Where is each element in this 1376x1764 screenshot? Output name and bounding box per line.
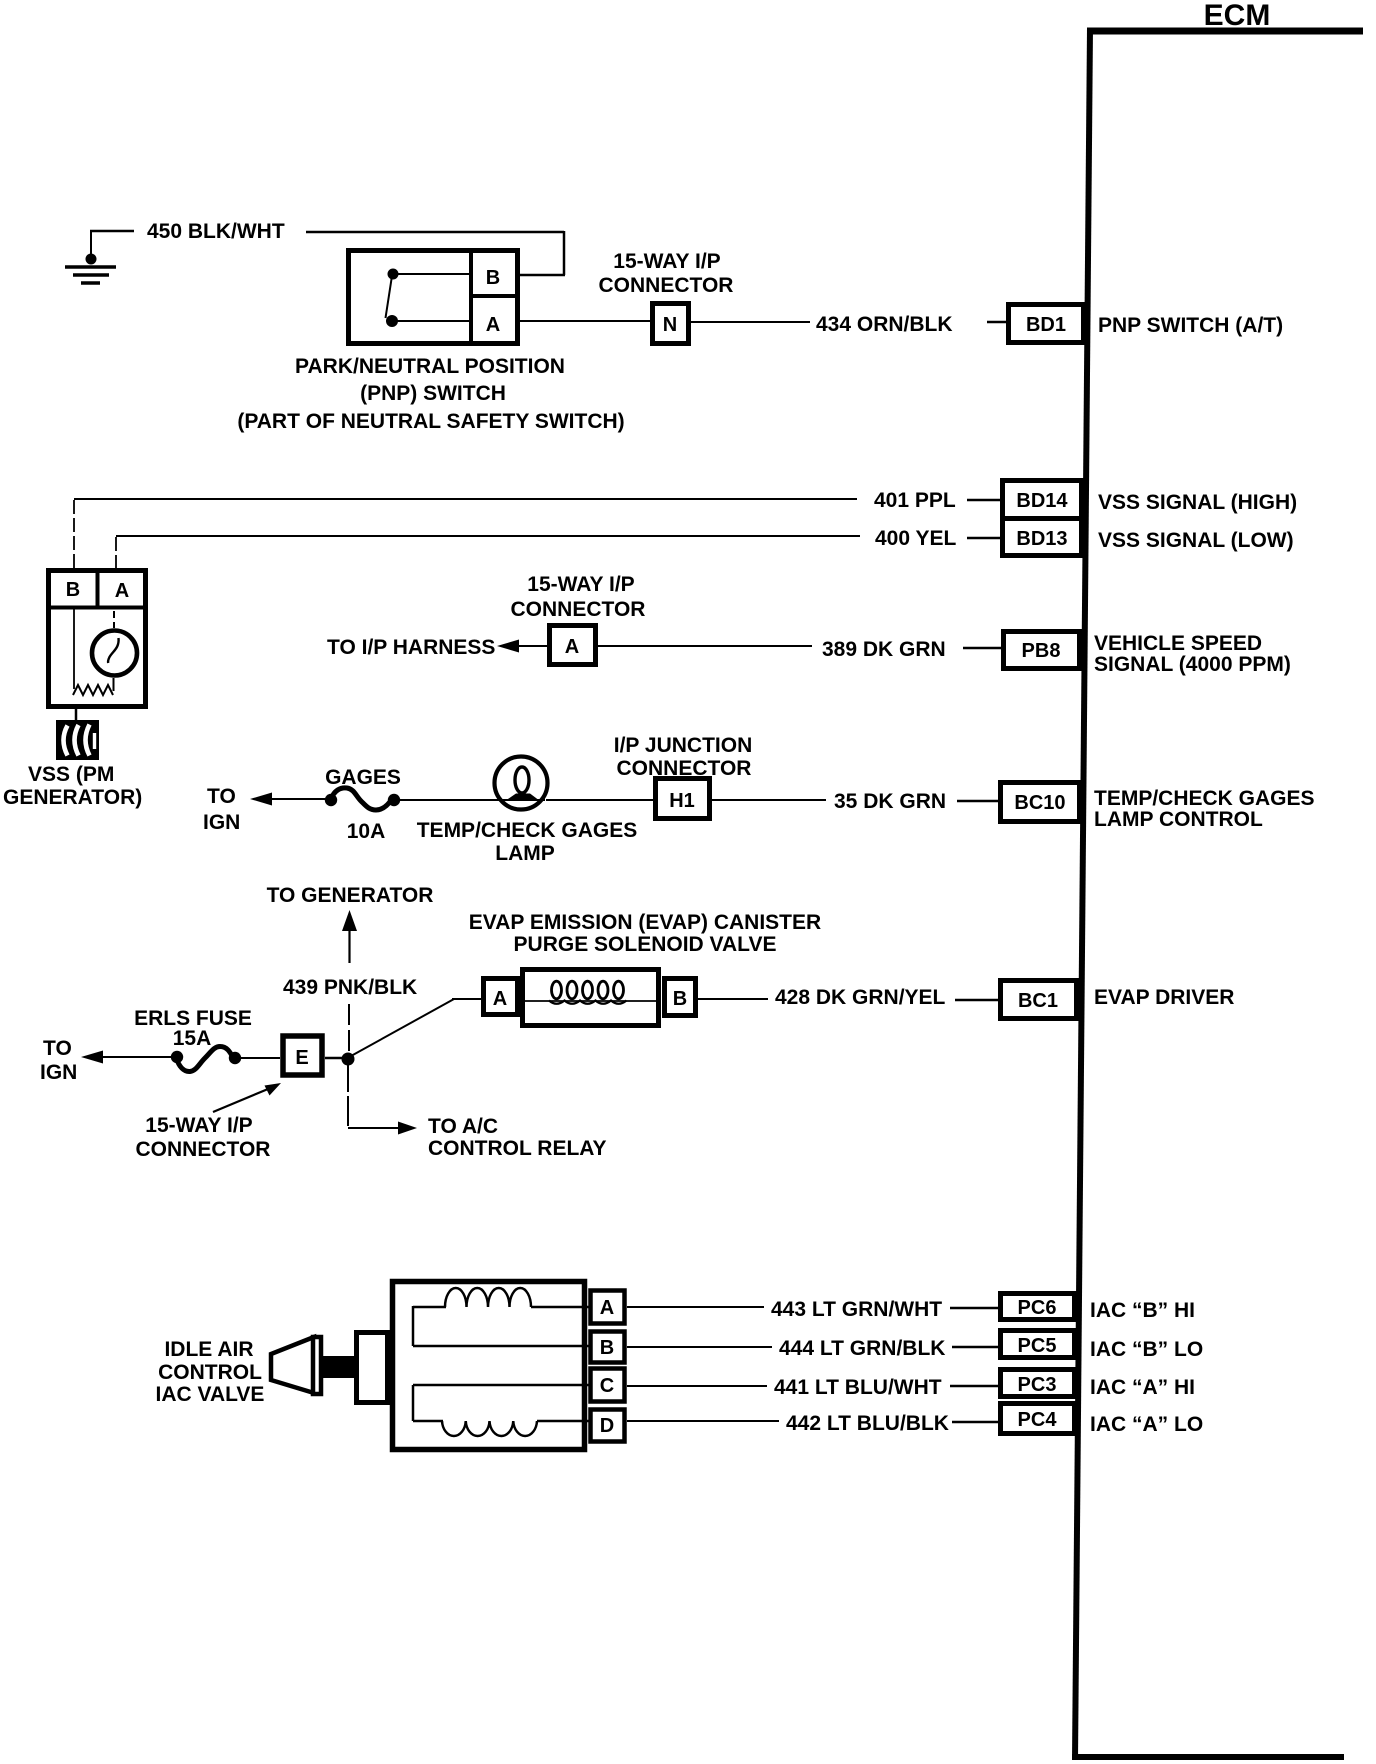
PNP switch contact B (388, 269, 472, 280)
svg-text:441 LT BLU/WHT: 441 LT BLU/WHT (774, 1376, 942, 1399)
svg-text:10A: 10A (347, 820, 386, 843)
label TO IGN (gages fuse) (203, 785, 240, 834)
IAC terminal C (591, 1369, 625, 1402)
label VEHICLE SPEED SIGNAL (1094, 632, 1291, 676)
svg-text:450 BLK/WHT: 450 BLK/WHT (147, 220, 285, 243)
svg-text:(PART OF NEUTRAL SAFETY SWITCH: (PART OF NEUTRAL SAFETY SWITCH) (237, 410, 624, 433)
svg-text:BD1: BD1 (1026, 314, 1066, 336)
label 35 DK GRN (834, 790, 946, 813)
ECM pin BC1 (1001, 981, 1077, 1019)
label 443 LT GRN/WHT (771, 1298, 942, 1321)
connector A box (550, 626, 596, 665)
VSS terminal A label (115, 580, 129, 602)
svg-text:400 YEL: 400 YEL (875, 527, 957, 550)
wire 428 from B (698, 998, 768, 1000)
wire 450 BLK/WHT to PNP switch terminal B (306, 231, 565, 275)
wire 442 from IAC D (627, 1420, 779, 1422)
svg-text:A: A (600, 1297, 614, 1319)
wire junction to EVAP solenoid A (351, 999, 483, 1056)
svg-text:D: D (600, 1415, 614, 1437)
ECM pin PC5 (1001, 1331, 1075, 1358)
IAC terminal A (591, 1291, 625, 1324)
wire stub into PC6 (950, 1307, 1000, 1310)
svg-text:428 DK GRN/YEL: 428 DK GRN/YEL (775, 986, 946, 1009)
svg-text:(PNP) SWITCH: (PNP) SWITCH (360, 382, 506, 405)
svg-text:A: A (115, 580, 129, 602)
ground G450 (65, 231, 116, 283)
label 450 BLK/WHT (147, 220, 285, 243)
VSS internal resistor (73, 685, 113, 695)
ECM bottom edge (1072, 1754, 1344, 1760)
svg-text:PARK/NEUTRAL POSITION: PARK/NEUTRAL POSITION (295, 355, 565, 378)
wire stub into PB8 (963, 647, 1001, 650)
VSS caption (3, 763, 142, 809)
ECM label (1204, 0, 1271, 32)
label 10A (347, 820, 386, 843)
svg-text:VSS (PM: VSS (PM (28, 763, 114, 786)
label VSS SIGNAL (LOW) (1098, 529, 1294, 552)
label TO A/C CONTROL RELAY (428, 1115, 607, 1160)
PNP terminal B label (486, 267, 500, 289)
wire stub into BD1 (987, 321, 1006, 324)
wire 389 from connector A (598, 645, 812, 647)
svg-text:BC10: BC10 (1014, 792, 1065, 814)
wire PNP A to connector N (520, 320, 650, 322)
label TO I/P HARNESS (327, 636, 495, 659)
svg-text:IAC VALVE: IAC VALVE (156, 1383, 265, 1406)
VSS internal dash A to coil (113, 611, 115, 628)
ECM pin PB8 (1004, 632, 1080, 669)
wire 441 from IAC C (627, 1385, 767, 1387)
PNP terminal A label (486, 314, 500, 336)
svg-text:SIGNAL (4000 PPM): SIGNAL (4000 PPM) (1094, 653, 1291, 676)
svg-text:IGN: IGN (203, 811, 240, 834)
ECM top edge (1087, 28, 1363, 35)
ECM pin BD1 (1009, 305, 1084, 343)
connector N box (653, 304, 689, 344)
IAC coil A (lower) (413, 1385, 590, 1436)
wire stub into BD14 (967, 499, 1000, 502)
svg-text:PNP SWITCH (A/T): PNP SWITCH (A/T) (1098, 314, 1283, 337)
VSS pickup coil symbol (56, 720, 99, 760)
svg-text:B: B (600, 1337, 614, 1359)
IAC valve collar (357, 1333, 388, 1403)
label PNP SWITCH (A/T) (1098, 314, 1283, 337)
svg-text:TO GENERATOR: TO GENERATOR (267, 884, 434, 907)
wire 434 from N (691, 321, 810, 323)
IAC terminal B (591, 1332, 625, 1363)
svg-text:PB8: PB8 (1022, 640, 1061, 662)
wire 444 from IAC B (627, 1346, 772, 1348)
svg-text:BD14: BD14 (1016, 490, 1068, 512)
wire junction to A/C relay (348, 1062, 417, 1135)
label IAC B LO (1090, 1338, 1203, 1361)
VSS generator body (46, 570, 148, 707)
svg-text:15-WAY I/P: 15-WAY I/P (527, 573, 634, 596)
junction node 439 (342, 1053, 355, 1066)
wire 450 BLK/WHT left segment (90, 230, 134, 233)
svg-text:CONTROL: CONTROL (158, 1361, 262, 1384)
wire E to junction (325, 1057, 344, 1060)
ECM pin PC4 (1001, 1404, 1075, 1434)
arrow caption to E box (213, 1083, 281, 1112)
svg-text:434 ORN/BLK: 434 ORN/BLK (816, 313, 953, 336)
svg-text:CONNECTOR: CONNECTOR (136, 1138, 271, 1161)
label 444 LT GRN/BLK (779, 1337, 945, 1360)
arrow to generator (342, 910, 357, 963)
label TO IGN (ERLS) (40, 1037, 77, 1084)
svg-text:443 LT GRN/WHT: 443 LT GRN/WHT (771, 1298, 942, 1321)
svg-text:35 DK GRN: 35 DK GRN (834, 790, 946, 813)
EVAP solenoid terminal B (665, 979, 696, 1016)
label VSS SIGNAL (HIGH) (1098, 491, 1297, 514)
wire stub into PC5 (952, 1346, 1000, 1349)
PNP switch contact A (386, 315, 471, 327)
label 389 DK GRN (822, 638, 946, 661)
svg-text:C: C (600, 1375, 614, 1397)
svg-text:VSS SIGNAL (HIGH): VSS SIGNAL (HIGH) (1098, 491, 1297, 514)
connector E box (283, 1036, 322, 1075)
lamp TEMP/CHECK GAGES (495, 757, 548, 810)
fuse ERLS 15A (171, 1047, 241, 1072)
label IAC A LO (1090, 1413, 1203, 1436)
VSS generator circle (92, 631, 137, 676)
IAC valve screw shaft (322, 1356, 356, 1378)
ECM left edge (1075, 28, 1090, 1760)
ECM pin PC3 (1001, 1370, 1075, 1397)
svg-text:TEMP/CHECK GAGES: TEMP/CHECK GAGES (1094, 787, 1315, 810)
VSS terminal B label (66, 579, 80, 601)
wire 443 from IAC A (627, 1306, 764, 1308)
15-way I/P connector caption (top) (599, 250, 734, 297)
lamp caption (417, 819, 638, 865)
label ERLS FUSE 15A (134, 1007, 252, 1050)
EVAP solenoid body L1 (522, 970, 660, 1026)
connector H1 box (656, 779, 710, 819)
svg-text:CONNECTOR: CONNECTOR (511, 598, 646, 621)
wire stub into PC3 (950, 1385, 1000, 1388)
IAC valve pintle cone (271, 1337, 314, 1393)
EVAP solenoid caption (469, 911, 821, 956)
svg-text:A: A (486, 314, 500, 336)
wire 400 YEL (116, 536, 860, 570)
IAC valve pintle bar (313, 1335, 321, 1396)
label IAC B HI (1090, 1299, 1195, 1322)
svg-text:442 LT BLU/BLK: 442 LT BLU/BLK (786, 1412, 949, 1435)
svg-text:TEMP/CHECK GAGES: TEMP/CHECK GAGES (417, 819, 638, 842)
wire lamp to H1 (546, 799, 655, 801)
svg-text:GENERATOR): GENERATOR) (3, 786, 142, 809)
arrow to IGN (gages) (250, 793, 331, 806)
svg-text:TO I/P HARNESS: TO I/P HARNESS (327, 636, 495, 659)
svg-text:LAMP: LAMP (495, 842, 555, 865)
wire 401 PPL (74, 499, 857, 570)
label 400 YEL (875, 527, 957, 550)
IAC valve body (393, 1282, 585, 1450)
svg-text:EVAP EMISSION (EVAP) CANISTER: EVAP EMISSION (EVAP) CANISTER (469, 911, 821, 934)
svg-text:401 PPL: 401 PPL (874, 489, 956, 512)
label 428 DK GRN/YEL (775, 986, 946, 1009)
svg-text:IAC “B” LO: IAC “B” LO (1090, 1338, 1203, 1361)
svg-text:ECM: ECM (1204, 0, 1271, 32)
svg-text:N: N (663, 314, 677, 336)
svg-text:IAC “B” HI: IAC “B” HI (1090, 1299, 1195, 1322)
svg-text:A: A (493, 988, 507, 1010)
svg-text:PC4: PC4 (1018, 1409, 1058, 1431)
VSS pickup stem (75, 708, 78, 722)
I/P junction connector caption (614, 734, 752, 780)
arrow to I/P harness (497, 640, 549, 653)
VSS internal wire B side (73, 609, 75, 689)
VSS internal dash coil to resistor (113, 678, 115, 691)
svg-text:15-WAY I/P: 15-WAY I/P (145, 1114, 252, 1137)
label IAC A HI (1090, 1376, 1195, 1399)
ECM pins BD14 / BD13 (1001, 481, 1084, 556)
svg-text:CONNECTOR: CONNECTOR (599, 274, 734, 297)
EVAP solenoid terminal A (484, 979, 518, 1015)
wire stub into PC4 (952, 1421, 1000, 1424)
svg-text:PC6: PC6 (1018, 1297, 1057, 1319)
svg-text:GAGES: GAGES (325, 766, 401, 789)
IAC terminal D (591, 1410, 625, 1442)
label TO GENERATOR (267, 884, 434, 907)
PNP switch body (349, 249, 520, 345)
svg-text:A: A (565, 636, 579, 658)
PNP switch arm (386, 279, 392, 318)
ECM pin BC10 (1001, 783, 1080, 822)
svg-text:15-WAY I/P: 15-WAY I/P (613, 250, 720, 273)
15-way I/P connector caption (bottom) (136, 1114, 271, 1161)
svg-text:PC3: PC3 (1018, 1374, 1057, 1396)
label 441 LT BLU/WHT (774, 1376, 942, 1399)
15-way I/P connector caption (middle) (511, 573, 646, 621)
svg-text:H1: H1 (669, 790, 695, 812)
svg-text:TO: TO (43, 1037, 72, 1060)
wire stub into BD13 (967, 537, 1000, 540)
svg-text:BD13: BD13 (1016, 528, 1067, 550)
wire fuse to lamp (396, 799, 500, 801)
arrow to IGN (ERLS) (81, 1051, 174, 1064)
IAC coil B (upper) (413, 1288, 590, 1346)
svg-text:439 PNK/BLK: 439 PNK/BLK (283, 976, 417, 999)
svg-text:E: E (295, 1047, 308, 1069)
wire fuse to E (238, 1057, 280, 1059)
svg-text:IAC “A” LO: IAC “A” LO (1090, 1413, 1203, 1436)
svg-text:PC5: PC5 (1018, 1335, 1057, 1357)
svg-text:I/P JUNCTION: I/P JUNCTION (614, 734, 752, 757)
wire stub into BC1 (955, 999, 1000, 1002)
svg-text:VSS SIGNAL (LOW): VSS SIGNAL (LOW) (1098, 529, 1294, 552)
svg-text:15A: 15A (173, 1027, 212, 1050)
label TEMP/CHECK GAGES LAMP CONTROL (1094, 787, 1315, 831)
svg-text:PURGE SOLENOID VALVE: PURGE SOLENOID VALVE (514, 933, 777, 956)
svg-text:CONTROL RELAY: CONTROL RELAY (428, 1137, 607, 1160)
svg-text:LAMP CONTROL: LAMP CONTROL (1094, 808, 1263, 831)
wire 35 from H1 (712, 799, 826, 801)
svg-text:444 LT GRN/BLK: 444 LT GRN/BLK (779, 1337, 945, 1360)
svg-text:TO A/C: TO A/C (428, 1115, 498, 1138)
svg-text:IAC “A” HI: IAC “A” HI (1090, 1376, 1195, 1399)
wire stub into BC10 (957, 800, 1000, 803)
svg-text:B: B (486, 267, 500, 289)
label 439 PNK/BLK (283, 976, 417, 999)
svg-text:IGN: IGN (40, 1061, 77, 1084)
fuse GAGES 10A (325, 788, 400, 810)
svg-text:389 DK GRN: 389 DK GRN (822, 638, 946, 661)
svg-text:B: B (66, 579, 80, 601)
svg-text:BC1: BC1 (1018, 990, 1058, 1012)
svg-text:EVAP DRIVER: EVAP DRIVER (1094, 986, 1234, 1009)
svg-text:TO: TO (207, 785, 236, 808)
svg-text:IDLE AIR: IDLE AIR (164, 1338, 253, 1361)
wire 439 below label (348, 1004, 350, 1054)
label EVAP DRIVER (1094, 986, 1234, 1009)
label 442 LT BLU/BLK (786, 1412, 949, 1435)
svg-text:B: B (673, 988, 687, 1010)
label 434 ORN/BLK (816, 313, 953, 336)
ECM pin PC6 (1001, 1294, 1075, 1320)
label GAGES (325, 766, 401, 789)
label 401 PPL (874, 489, 956, 512)
PNP switch caption (237, 355, 624, 433)
svg-text:VEHICLE SPEED: VEHICLE SPEED (1094, 632, 1262, 655)
IAC valve caption (156, 1338, 265, 1406)
